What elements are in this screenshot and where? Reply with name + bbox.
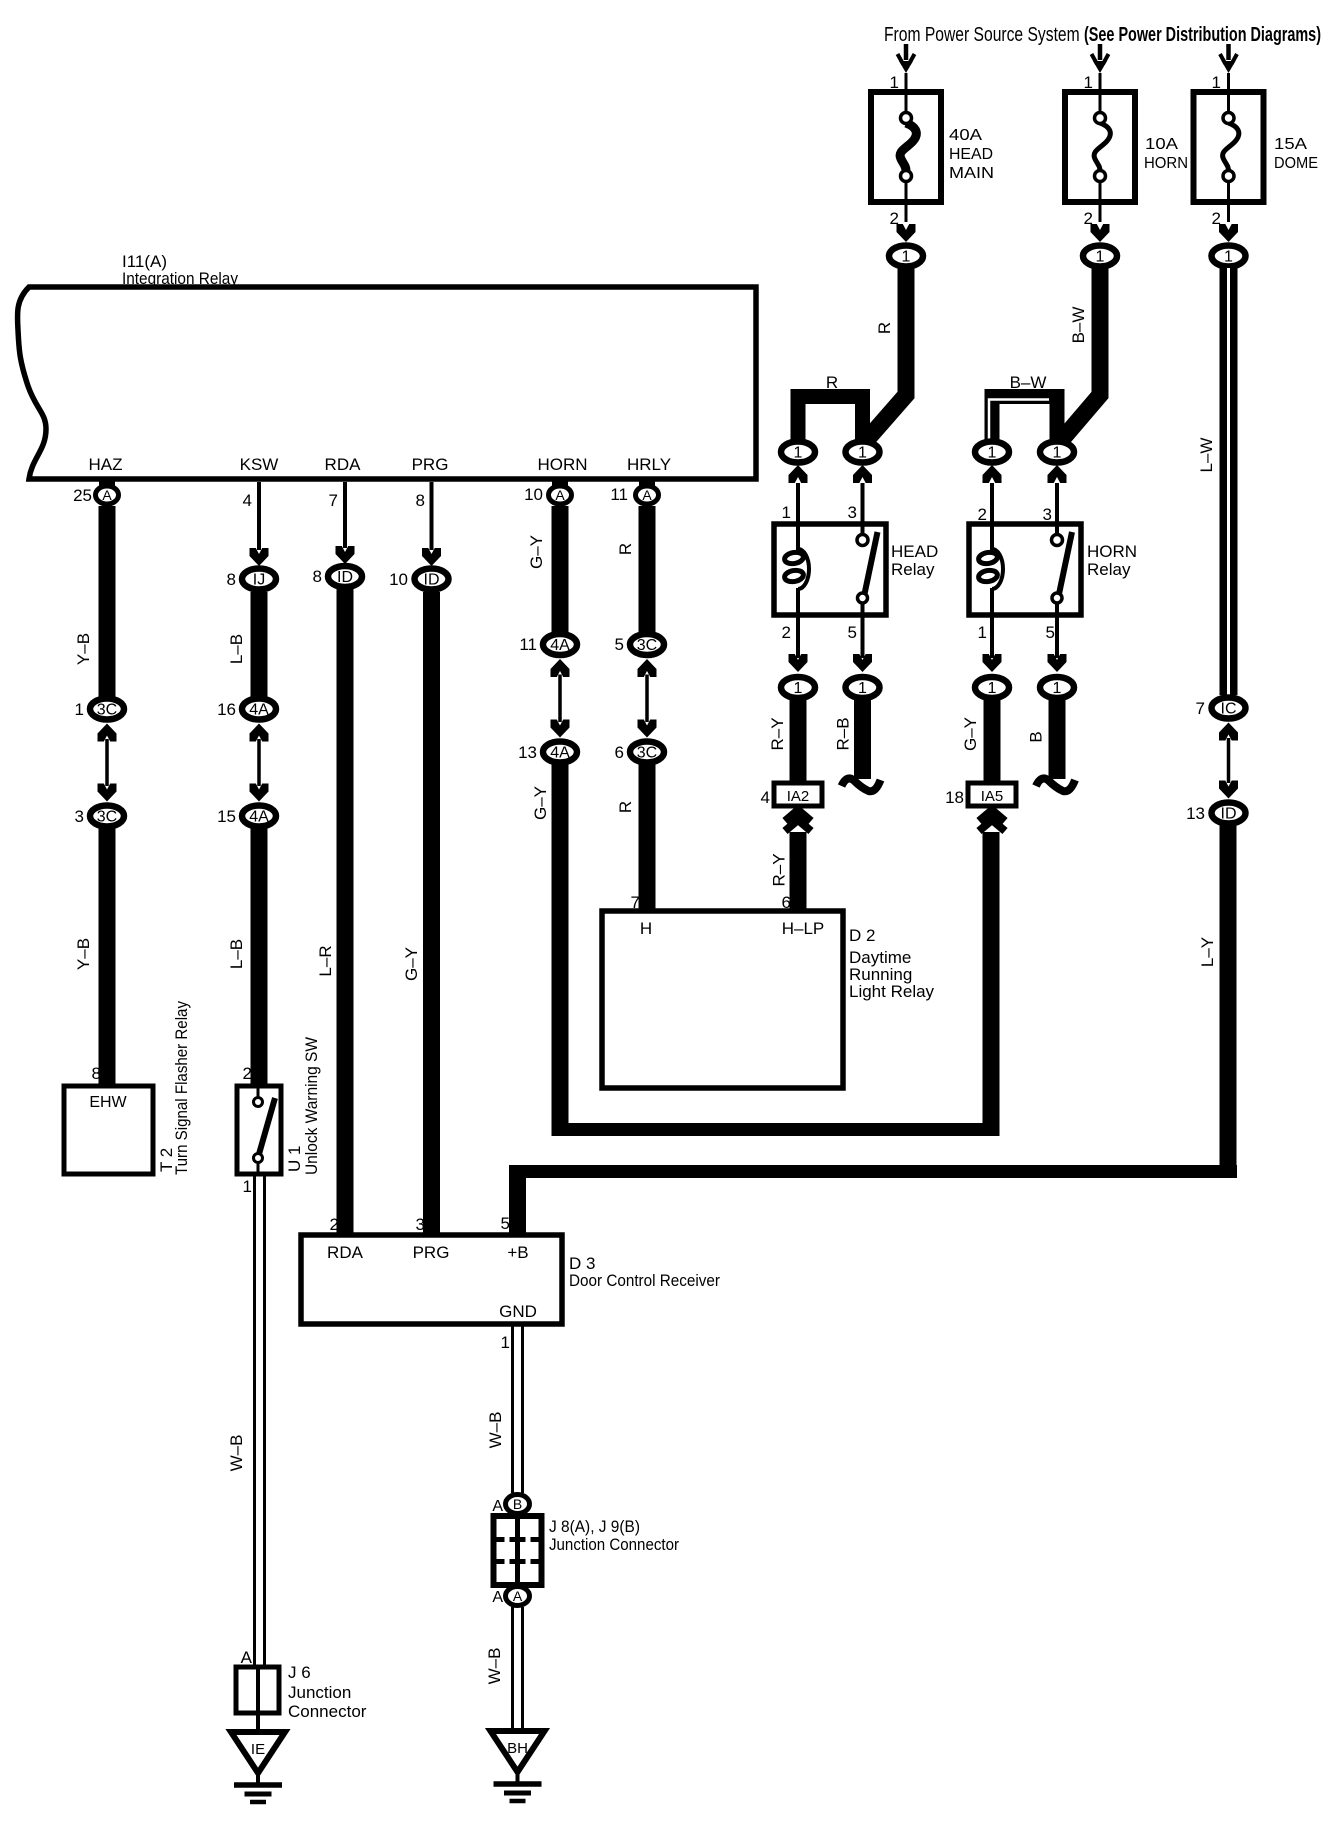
svg-text:W–B: W–B [486, 1412, 505, 1449]
svg-text:1: 1 [1212, 73, 1221, 92]
svg-text:Turn Signal Flasher Relay: Turn Signal Flasher Relay [172, 1001, 191, 1175]
svg-text:1: 1 [858, 445, 867, 462]
svg-text:R–Y: R–Y [768, 717, 787, 750]
svg-text:7: 7 [631, 893, 640, 912]
svg-text:1: 1 [988, 445, 997, 462]
svg-text:From Power Source System (See: From Power Source System (See Power Dist… [884, 24, 1321, 46]
svg-text:1: 1 [858, 680, 867, 697]
svg-text:BH: BH [507, 1740, 528, 1757]
svg-text:1: 1 [988, 680, 997, 697]
svg-text:11: 11 [610, 485, 628, 504]
svg-text:Door Control Receiver: Door Control Receiver [569, 1271, 720, 1290]
svg-text:1: 1 [978, 623, 987, 642]
svg-text:R: R [826, 373, 838, 392]
svg-text:2: 2 [890, 209, 899, 228]
svg-text:+B: +B [507, 1243, 528, 1262]
svg-text:R–Y: R–Y [770, 853, 789, 886]
svg-text:5: 5 [501, 1214, 510, 1233]
svg-text:1: 1 [902, 249, 911, 266]
svg-text:RDA: RDA [327, 1243, 364, 1262]
svg-text:3C: 3C [637, 745, 657, 762]
svg-text:7: 7 [329, 491, 338, 510]
svg-text:Junction Connector: Junction Connector [549, 1535, 679, 1554]
svg-text:J 6: J 6 [288, 1663, 311, 1682]
svg-text:5: 5 [848, 623, 857, 642]
svg-text:HORN: HORN [537, 455, 587, 474]
svg-text:PRG: PRG [413, 1243, 450, 1262]
svg-text:4: 4 [761, 788, 770, 807]
svg-text:1: 1 [794, 680, 803, 697]
svg-text:G–Y: G–Y [402, 947, 421, 981]
svg-text:GND: GND [499, 1302, 537, 1321]
svg-text:W–B: W–B [485, 1648, 504, 1685]
svg-text:13: 13 [1186, 804, 1205, 823]
svg-text:1: 1 [1224, 249, 1233, 266]
svg-text:L–W: L–W [1197, 438, 1216, 473]
svg-text:R: R [875, 322, 894, 334]
svg-text:ID: ID [337, 569, 353, 586]
svg-text:A: A [492, 1589, 503, 1606]
svg-text:HAZ: HAZ [89, 455, 123, 474]
svg-text:13: 13 [518, 743, 537, 762]
svg-text:3C: 3C [637, 637, 657, 654]
svg-text:4A: 4A [550, 745, 570, 762]
svg-text:1: 1 [1084, 73, 1093, 92]
svg-text:PRG: PRG [412, 455, 449, 474]
svg-text:L–Y: L–Y [1198, 937, 1217, 967]
svg-text:8: 8 [416, 491, 425, 510]
svg-text:DOME: DOME [1274, 155, 1318, 172]
svg-text:IJ: IJ [253, 572, 265, 589]
svg-text:HEAD: HEAD [891, 542, 938, 561]
svg-text:HEAD: HEAD [949, 146, 993, 163]
svg-text:4A: 4A [249, 809, 269, 826]
svg-text:Light Relay: Light Relay [849, 982, 935, 1001]
svg-text:RDA: RDA [325, 455, 362, 474]
svg-text:H: H [640, 919, 652, 938]
svg-text:10: 10 [389, 570, 408, 589]
svg-text:R–B: R–B [834, 717, 853, 750]
svg-text:2: 2 [978, 505, 987, 524]
svg-text:2: 2 [330, 1215, 339, 1234]
svg-text:4A: 4A [249, 702, 269, 719]
svg-text:3: 3 [416, 1215, 425, 1234]
svg-text:3C: 3C [97, 702, 117, 719]
svg-text:8: 8 [92, 1064, 101, 1083]
svg-text:6: 6 [782, 893, 791, 912]
svg-text:40A: 40A [949, 127, 982, 144]
svg-text:MAIN: MAIN [949, 165, 994, 182]
svg-text:IA5: IA5 [981, 788, 1004, 805]
svg-text:A: A [513, 1588, 523, 1604]
svg-text:8: 8 [313, 567, 322, 586]
svg-text:H–LP: H–LP [782, 919, 825, 938]
svg-text:1: 1 [1053, 680, 1062, 697]
svg-text:HORN: HORN [1144, 155, 1188, 172]
svg-text:J 8(A), J 9(B): J 8(A), J 9(B) [549, 1517, 640, 1536]
svg-text:HRLY: HRLY [627, 455, 671, 474]
svg-text:1: 1 [75, 700, 84, 719]
svg-text:G–Y: G–Y [527, 535, 546, 569]
svg-text:3: 3 [848, 503, 857, 522]
svg-text:18: 18 [945, 788, 964, 807]
svg-text:Relay: Relay [1087, 560, 1131, 579]
svg-text:Y–B: Y–B [74, 633, 93, 665]
svg-text:1: 1 [243, 1177, 252, 1196]
svg-text:1: 1 [501, 1333, 510, 1352]
svg-text:1: 1 [782, 503, 791, 522]
svg-text:1: 1 [1096, 249, 1105, 266]
svg-text:1: 1 [1053, 445, 1062, 462]
svg-text:A: A [642, 487, 652, 503]
svg-text:G–Y: G–Y [531, 786, 550, 820]
svg-text:L–R: L–R [316, 945, 335, 976]
svg-text:IC: IC [1221, 701, 1237, 718]
svg-text:2: 2 [1084, 209, 1093, 228]
svg-text:25: 25 [73, 486, 92, 505]
svg-text:15: 15 [217, 807, 236, 826]
svg-text:2: 2 [1212, 209, 1221, 228]
svg-text:8: 8 [227, 570, 236, 589]
svg-text:B: B [513, 1496, 522, 1512]
svg-text:4A: 4A [550, 637, 570, 654]
svg-text:2: 2 [243, 1064, 252, 1083]
svg-text:1: 1 [794, 445, 803, 462]
svg-text:15A: 15A [1274, 136, 1307, 153]
svg-text:10A: 10A [1145, 136, 1178, 153]
svg-text:2: 2 [782, 623, 791, 642]
svg-text:KSW: KSW [240, 455, 279, 474]
svg-text:16: 16 [217, 700, 236, 719]
svg-text:L–B: L–B [227, 634, 246, 664]
svg-text:5: 5 [1046, 623, 1055, 642]
svg-text:B–W: B–W [1069, 307, 1088, 344]
svg-text:Unlock Warning SW: Unlock Warning SW [302, 1037, 321, 1175]
svg-text:Junction: Junction [288, 1683, 351, 1702]
svg-text:Integration Relay: Integration Relay [122, 269, 238, 288]
svg-text:10: 10 [524, 485, 543, 504]
svg-text:A: A [492, 1498, 503, 1515]
svg-text:ID: ID [1221, 806, 1237, 823]
svg-text:L–B: L–B [227, 939, 246, 969]
svg-text:G–Y: G–Y [961, 717, 980, 751]
svg-text:Y–B: Y–B [74, 938, 93, 970]
svg-text:HORN: HORN [1087, 542, 1137, 561]
svg-text:Connector: Connector [288, 1702, 367, 1721]
svg-text:6: 6 [615, 743, 624, 762]
svg-text:Relay: Relay [891, 560, 935, 579]
svg-text:R: R [616, 801, 635, 813]
svg-text:11: 11 [519, 635, 537, 654]
svg-text:B–W: B–W [1010, 373, 1047, 392]
svg-text:R: R [616, 543, 635, 555]
svg-text:A: A [241, 1648, 253, 1667]
svg-text:A: A [555, 487, 565, 503]
svg-text:5: 5 [615, 635, 624, 654]
svg-text:B: B [1027, 731, 1046, 742]
svg-text:D 2: D 2 [849, 926, 875, 945]
svg-text:IA2: IA2 [787, 788, 810, 805]
svg-text:1: 1 [890, 73, 899, 92]
svg-text:7: 7 [1196, 699, 1205, 718]
svg-text:ID: ID [424, 572, 440, 589]
svg-text:EHW: EHW [89, 1094, 127, 1111]
svg-text:IE: IE [251, 1741, 265, 1758]
svg-text:3: 3 [75, 807, 84, 826]
svg-text:A: A [102, 487, 112, 503]
svg-text:4: 4 [243, 491, 252, 510]
svg-text:3C: 3C [97, 809, 117, 826]
svg-text:W–B: W–B [227, 1435, 246, 1472]
svg-text:3: 3 [1043, 505, 1052, 524]
